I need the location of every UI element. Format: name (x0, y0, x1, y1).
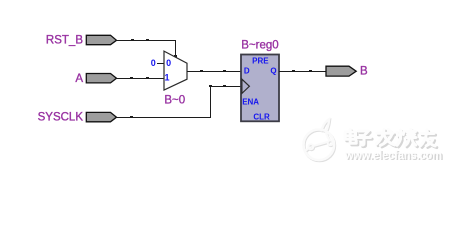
watermark logo (304, 120, 335, 161)
svg-text:B: B (360, 66, 368, 78)
svg-text:ENA: ENA (242, 98, 259, 107)
svg-text:PRE: PRE (252, 56, 269, 65)
wire RST_B to mux B~0 select (117, 41, 176, 57)
clock triangle (242, 79, 250, 93)
input pin RST_B (86, 35, 116, 44)
svg-text:Q: Q (270, 66, 276, 75)
junction dot on SYSCLK wire (130, 116, 133, 118)
connection dot at mux select (174, 55, 177, 58)
junction dot on RST_B wire 2 (146, 39, 149, 41)
multiplexer B~0 (164, 51, 187, 90)
svg-text:0: 0 (166, 58, 171, 68)
junction dot on A wire 2 (146, 77, 149, 79)
junction dot on A wire 1 (130, 77, 133, 79)
junction dot at clock corner (209, 85, 212, 87)
svg-text:RST_B: RST_B (46, 34, 83, 46)
wire SYSCLK to flip-flop clock (117, 87, 242, 118)
wire flip-flop Q to output pin B (279, 71, 326, 73)
svg-text:A: A (75, 73, 83, 85)
svg-text:1: 1 (164, 73, 169, 83)
junction dot on Q wire 2 (309, 70, 312, 72)
junction dot on RST_B wire 1 (131, 39, 134, 41)
wire A to mux input 1 (117, 78, 165, 80)
wire mux B~0 output to flip-flop D (187, 71, 241, 73)
input pin A (86, 74, 116, 83)
svg-text:B~reg0: B~reg0 (241, 40, 278, 52)
junction dot on clock wire (223, 85, 226, 87)
D flip-flop B~reg0 (241, 55, 279, 122)
svg-text:B~0: B~0 (164, 94, 185, 106)
svg-text:D: D (244, 66, 250, 75)
junction dot on D wire 1 (200, 70, 203, 72)
watermark text 电子发烧友 (347, 131, 437, 148)
junction dot on D wire 2 (223, 70, 226, 72)
wire constant 0 to mux input 0 (157, 63, 164, 65)
input pin SYSCLK (86, 112, 116, 121)
svg-text:CLR: CLR (253, 113, 270, 122)
junction dot on Q wire 1 (292, 70, 295, 72)
svg-text:www.elecfans.com: www.elecfans.com (344, 150, 442, 162)
svg-text:0: 0 (151, 58, 156, 68)
svg-text:SYSCLK: SYSCLK (38, 112, 84, 124)
output pin B (326, 66, 356, 76)
